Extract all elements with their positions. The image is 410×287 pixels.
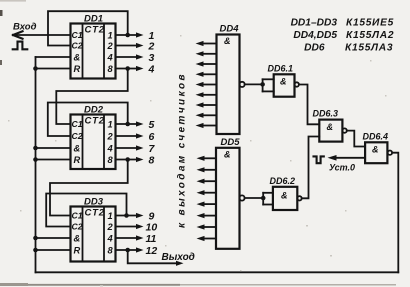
DD4 input arrows: [203, 44, 217, 126]
node junction DD1 out8: [125, 66, 130, 71]
svg-text:8: 8: [108, 246, 114, 256]
DD5 input arrows: [204, 158, 216, 238]
svg-text:Выход: Выход: [162, 252, 195, 263]
wire reset bus bottom: [36, 271, 399, 273]
svg-text:8: 8: [108, 64, 114, 74]
wire output 12 to Выход: [128, 250, 177, 263]
node junction DD1 R on bus: [33, 66, 38, 71]
svg-text:1: 1: [108, 31, 113, 41]
node junction DD3 out1: [124, 213, 129, 218]
wire DD6.2 out to DD6.3 in2: [302, 137, 320, 199]
svg-text:C2: C2: [72, 41, 83, 51]
pin labels DD1: [72, 25, 114, 75]
DD4 output bubble: [240, 82, 245, 87]
wire DD2 output 4: [116, 147, 138, 149]
svg-text:К155ИЕ5: К155ИЕ5: [346, 18, 394, 29]
svg-text:C2: C2: [72, 131, 83, 141]
wire DD5 out to DD6.2: [245, 197, 264, 199]
svg-text:DD6.4: DD6.4: [363, 132, 389, 142]
svg-text:10: 10: [146, 221, 158, 233]
svg-text:&: &: [372, 145, 379, 155]
wire DD3 output 8: [116, 249, 138, 251]
svg-text:2: 2: [107, 132, 114, 142]
wire reset bus right vertical to DD6.4 output: [392, 153, 398, 273]
svg-text:Вход: Вход: [13, 22, 37, 33]
wire DD1 & to reset bus: [36, 56, 71, 58]
svg-text:5: 5: [149, 119, 155, 131]
svg-text:DD6.1: DD6.1: [268, 64, 294, 74]
wire DD6.3 out to DD6.4 in1: [347, 131, 365, 147]
svg-text:&: &: [74, 144, 81, 154]
wire DD1 output 2: [116, 45, 138, 47]
wire Уст.0 input to DD6.4 in2: [336, 157, 365, 159]
svg-text:&: &: [224, 149, 231, 159]
svg-text:DD3: DD3: [84, 197, 104, 208]
svg-text:CT2: CT2: [85, 116, 105, 127]
node junction DD3 & on bus: [33, 236, 38, 241]
wire DD1 output 1: [116, 34, 138, 36]
svg-text:6: 6: [149, 131, 155, 143]
svg-text:R: R: [74, 246, 81, 256]
svg-text:&: &: [74, 53, 81, 63]
wire input C1: [13, 34, 71, 36]
wire DD3 feedback out1 to C2: [46, 194, 126, 227]
node junction DD2 out8: [125, 157, 130, 162]
scan artifact left edge: [0, 10, 3, 16]
gate DD4 box: [217, 35, 240, 135]
svg-text:&: &: [327, 122, 334, 132]
svg-text:4: 4: [107, 144, 114, 154]
svg-text:11: 11: [146, 233, 157, 245]
svg-text:DD4,DD5: DD4,DD5: [293, 30, 337, 41]
svg-text:Уст.0: Уст.0: [329, 163, 355, 173]
svg-text:4: 4: [107, 234, 114, 244]
wire DD2 & to reset bus: [36, 147, 71, 149]
svg-text:CT2: CT2: [85, 208, 105, 219]
wire DD1 R to reset bus: [36, 68, 71, 70]
node junction DD2 out1: [125, 122, 130, 127]
wire DD4 out to DD6.1: [245, 83, 263, 85]
svg-text:DD2: DD2: [84, 105, 104, 116]
svg-text:C2: C2: [72, 222, 83, 232]
svg-text:&: &: [281, 191, 288, 201]
wire DD3 output 4: [116, 237, 138, 239]
svg-text:DD6: DD6: [304, 43, 325, 54]
gate DD5 box: [216, 148, 240, 249]
svg-text:R: R: [74, 64, 81, 74]
wire DD2 output 1: [116, 123, 138, 125]
svg-text:C1: C1: [72, 119, 83, 129]
svg-text:C1: C1: [72, 30, 83, 40]
svg-text:К155ЛА3: К155ЛА3: [345, 43, 393, 54]
wire DD3 & to reset bus: [36, 237, 71, 239]
legend text: [291, 18, 395, 54]
counter DD1 box: [71, 24, 116, 79]
wire DD1 feedback out1 to C2: [48, 11, 128, 45]
svg-text:DD1–DD3: DD1–DD3: [291, 18, 338, 29]
input arrow: [13, 31, 23, 38]
svg-text:1: 1: [108, 120, 113, 130]
svg-text:к выходам счетчиков: к выходам счетчиков: [177, 72, 188, 228]
svg-text:DD5: DD5: [221, 137, 241, 148]
node junction DD3 out8: [125, 248, 130, 253]
svg-text:DD6.3: DD6.3: [313, 109, 339, 119]
node junction DD3 R on bus: [33, 248, 38, 253]
svg-text:DD4: DD4: [220, 24, 240, 35]
scan artifact top edge: [0, 0, 26, 2]
svg-text:2: 2: [107, 222, 114, 232]
svg-text:&: &: [224, 36, 231, 46]
Уст.0 pulse symbol: [314, 156, 324, 163]
wire DD6.1 out to DD6.3 in1: [299, 85, 319, 125]
scan artifact bottom line: [0, 284, 180, 286]
svg-text:12: 12: [146, 245, 158, 257]
DD5 output bubble: [239, 195, 244, 200]
counter DD2 box: [71, 115, 116, 170]
wire DD3 R to reset bus: [36, 249, 71, 251]
node junction DD2 R on bus: [33, 157, 38, 162]
pin labels DD2: [72, 116, 114, 166]
svg-text:4: 4: [107, 53, 114, 63]
wire DD3 output 2: [116, 226, 138, 228]
node junction DD2 & on bus: [33, 146, 38, 151]
wire DD1 output 8: [116, 68, 138, 70]
pin labels DD3: [72, 208, 114, 256]
wire DD2 output 2: [116, 135, 138, 137]
gate DD6.2: [263, 187, 301, 210]
wire DD2 output 8: [116, 159, 138, 161]
wire DD1 output 4: [116, 56, 138, 58]
svg-text:R: R: [74, 155, 81, 165]
svg-text:2: 2: [148, 40, 155, 52]
gate DD6.4: [365, 142, 392, 163]
svg-text:1: 1: [108, 211, 113, 221]
svg-text:&: &: [74, 234, 81, 244]
svg-text:&: &: [280, 77, 287, 87]
gate DD6.1: [263, 74, 299, 96]
svg-text:8: 8: [108, 155, 114, 165]
svg-text:C1: C1: [72, 211, 83, 221]
node junction DD1 out1: [125, 33, 130, 38]
wire DD2 feedback out1 to C2: [48, 103, 128, 137]
svg-text:2: 2: [107, 41, 114, 51]
svg-text:К155ЛА2: К155ЛА2: [346, 30, 394, 41]
svg-text:8: 8: [149, 154, 155, 166]
svg-text:DD1: DD1: [84, 14, 103, 25]
svg-text:CT2: CT2: [85, 25, 105, 36]
wire DD2 R to reset bus: [36, 159, 71, 161]
svg-text:3: 3: [149, 52, 155, 64]
counter DD3 box: [71, 207, 116, 262]
wire reset bus vertical: [35, 57, 37, 272]
node junction DD6.1 input: [260, 82, 265, 87]
wire DD2 out8 to DD3 C1: [50, 160, 128, 216]
wire DD1 out8 to DD2 C1: [56, 69, 127, 125]
wire DD3 output 1: [116, 215, 138, 217]
node junction DD6.2 input: [261, 196, 266, 201]
gate DD6.3: [319, 120, 347, 142]
input pulse symbol: [13, 42, 28, 50]
svg-text:4: 4: [148, 63, 155, 75]
svg-text:DD6.2: DD6.2: [270, 176, 296, 186]
